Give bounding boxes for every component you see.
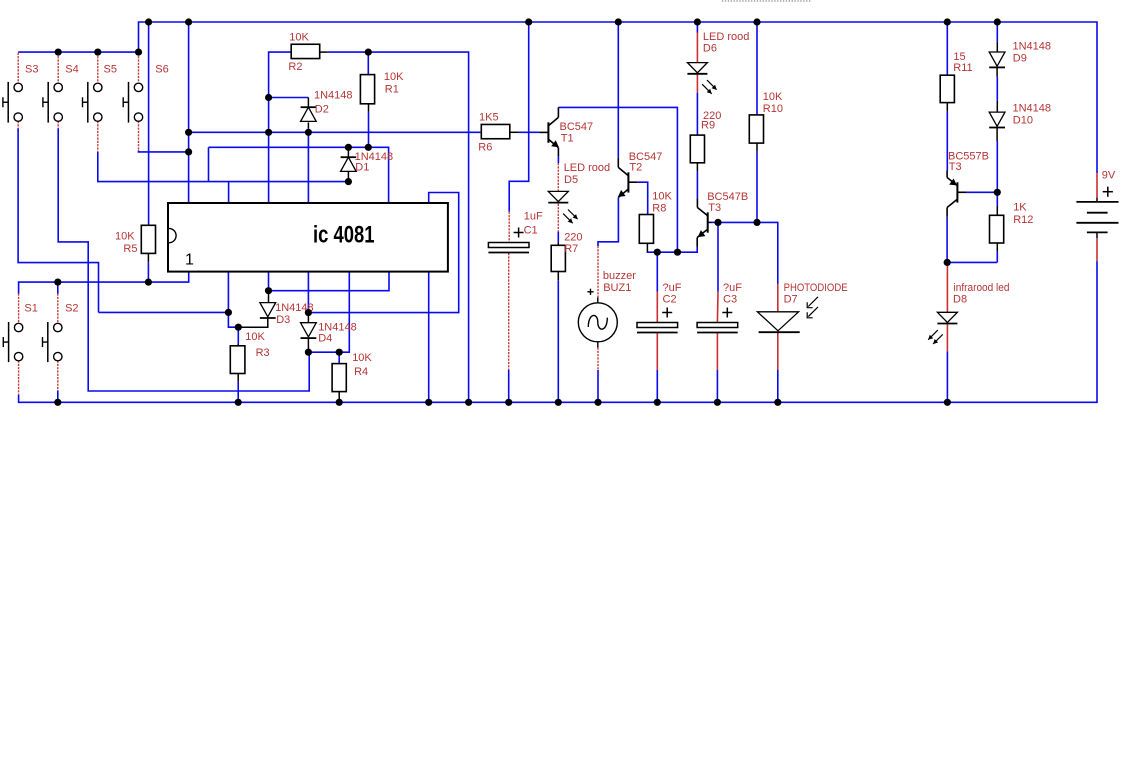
svg-text:R12: R12 [1013,214,1033,226]
wire R4 bottom black lead [338,392,340,401]
wire emitter row right [947,261,997,263]
svg-text:?uF: ?uF [723,282,742,294]
junction [54,279,61,286]
wire S3 row to IC pin2 [99,311,229,313]
transistor T2 BC547 [618,158,637,199]
wire D3-D1 gate link [269,272,390,291]
push switch S4 [43,82,63,123]
svg-text:10K: 10K [245,331,265,343]
svg-text:D8: D8 [953,294,967,306]
push switch S1 [3,322,23,362]
red wire D6 cathode [696,74,698,93]
svg-text:D4: D4 [318,332,332,344]
wire node row y132 [189,131,481,133]
wire R12 top [996,192,998,206]
wire R11 bottom black lead [946,103,948,112]
dashed link D5 to R7 [557,204,559,232]
diode D4 [301,323,317,338]
resistor R11 [940,75,954,102]
svg-text:buzzer: buzzer [603,270,636,282]
svg-text:10K: 10K [384,71,404,83]
svg-text:S4: S4 [65,64,78,76]
wire S6 bottom link [139,150,189,152]
wire D1 row y147 [209,147,389,203]
svg-text:T2: T2 [629,161,642,173]
LED D6 [687,63,707,74]
wire R9 bottom blue [696,172,698,199]
svg-text:R1: R1 [385,83,399,95]
svg-text:R2: R2 [288,61,302,73]
junction [185,148,192,155]
wire S2 top stub [57,282,59,293]
wire T3b base blue [966,191,997,193]
svg-text:BUZ1: BUZ1 [603,282,631,294]
capacitor C3 [697,308,738,333]
wire R5 bottom stub [147,262,149,282]
wire R8 bottom row [647,247,697,252]
wire IC pin bottom 428 [428,272,430,403]
battery 9V [1076,187,1118,239]
junction [265,287,272,294]
svg-text:T1: T1 [561,133,574,145]
junction [305,129,312,136]
svg-text:1K: 1K [1013,202,1027,214]
wire T1 emitter blue bit [557,156,559,163]
svg-text:10K: 10K [352,352,372,364]
red wire battery plus [1096,173,1098,198]
LED D8 [937,312,957,323]
IC U1 4081 body [168,203,448,272]
transistor T3 BC547B [697,198,711,247]
wire D4 bottom to R4 row [308,272,349,353]
wire S3 chain upper [18,129,98,313]
dashed link S4 top [57,53,59,84]
junction [185,129,192,136]
wire bottom bus [19,261,1097,402]
dashed link S1 bottom [18,361,20,396]
dashed link S3 bottom [17,121,19,129]
junction [345,144,352,151]
resistor R5 [141,225,155,253]
wire D4 row to S3 net [308,193,458,313]
dashed link S3 top [17,53,19,84]
junction [425,399,432,406]
transistor T3b BC557B (PNP) [947,171,966,217]
red wire C2 top [656,292,658,323]
junction [465,399,472,406]
wire R12 bottom black stub [996,243,998,252]
svg-text:D6: D6 [703,43,717,55]
junction [525,18,532,25]
svg-text:D7: D7 [784,294,798,306]
svg-text:S1: S1 [24,303,37,315]
junction [994,18,1001,25]
diode D2 [301,107,317,121]
red wire D6 anode [696,33,698,63]
resistor R8 [639,215,653,244]
wire D4 bottom black stub [307,339,309,353]
wire D3 top black stub [268,291,270,303]
svg-text:LED rood: LED rood [564,162,610,174]
junction [944,399,951,406]
capacitor C2 [637,308,678,333]
junction [305,349,312,356]
wire D2 bottom to IC pin [307,129,309,203]
push switch S5 [83,82,103,123]
svg-text:PHOTODIODE: PHOTODIODE [784,282,848,294]
dashed link S2 bottom [57,361,59,391]
junction [94,49,101,56]
svg-text:1uF: 1uF [524,211,543,223]
red wire D7 cathode [777,333,779,370]
wire D4 column [307,272,309,313]
wire switch row S3-S6 [18,51,138,53]
junction [54,399,61,406]
wire IC pin1 bottom row [19,272,189,294]
resistor R1 [360,75,374,104]
wire R4 top stub [338,352,340,363]
LED D6 arrows [707,80,717,90]
wire T1 collector row [558,107,677,252]
push switch S2 [43,322,63,362]
wire R4 bottom [338,400,340,402]
wire R7 top black lead [557,242,559,245]
svg-text:R7: R7 [564,243,578,255]
svg-text:R10: R10 [763,103,783,115]
wire D4 top black stub [307,313,309,323]
LED D5 arrows [568,210,578,220]
junction [365,49,372,56]
wire R1 bottom black lead [368,103,370,112]
wire S2 bottom stub [57,391,59,403]
junction [555,399,562,406]
junction [594,399,601,406]
svg-text:R3: R3 [256,347,270,359]
junction [135,49,142,56]
wire IC top pin 229 stub [228,182,230,203]
junction [774,399,781,406]
wire D9-D10 link [996,77,998,101]
junction [305,309,312,316]
junction [225,309,232,316]
resistor R2 [291,44,320,58]
wire R2 right black lead [320,51,328,53]
wire D2 top link [269,97,309,99]
svg-text:C2: C2 [663,294,677,306]
wire C2 bottom blue [656,370,658,402]
wire C1 jog [509,22,529,212]
dashed link C1 bottom [508,253,510,370]
wire R2 right to R1 top and corner [328,52,469,402]
capacitor C1 [488,228,529,253]
wire D1 bottom black stub [347,172,349,182]
dashed link S6 top [138,53,140,84]
resistor R3 [230,346,245,374]
resistor R9 [690,135,704,163]
resistor R12 [990,215,1004,243]
wire D1 top black stub [347,147,349,157]
junction [694,18,701,25]
svg-text:S5: S5 [104,64,117,76]
diode D10 [989,112,1005,127]
wire C1 bottom [508,370,510,402]
wire R11 bottom blue [946,111,948,170]
wire D9 chain top [996,22,998,42]
wire D10 bottom blue [996,141,998,192]
svg-text:1K5: 1K5 [479,111,499,123]
junction [185,18,192,25]
wire R3 bottom black lead [237,374,239,382]
diode D3 [260,303,276,318]
junction [345,178,352,185]
junction [753,219,760,226]
wire D10 top stub [996,101,998,112]
wire D2 top black stub [307,98,309,108]
LED D8 arrows [928,330,938,340]
wire R10 bottom black stub [756,143,758,152]
svg-text:D2: D2 [315,104,329,116]
junction [55,49,62,56]
wire buzzer bottom blue [597,370,599,402]
push switch S6 [123,82,143,123]
svg-text:9V: 9V [1102,170,1116,182]
junction [365,144,372,151]
junction [336,399,343,406]
junction [714,399,721,406]
svg-text:ic 4081: ic 4081 [313,222,375,249]
junction [654,399,661,406]
resistor R6 [481,124,510,138]
svg-text:D9: D9 [1013,52,1027,64]
red wire C2 bottom [656,333,658,370]
dashed link S4 bottom [57,121,59,129]
wire C2 top blue [656,252,658,291]
dashed link buzzer bottom [597,348,599,371]
wire D2 bottom black stub [307,122,309,128]
wire D6 top blue [696,22,698,33]
junction [336,349,343,356]
svg-text:10K: 10K [115,231,135,243]
wire R3 top stub [237,327,239,343]
wire R7 bottom black lead [557,272,559,281]
junction [944,259,951,266]
svg-text:S2: S2 [65,303,78,315]
LED D5 [548,191,568,202]
wire D7 bottom blue [777,370,779,402]
svg-text:1N4148: 1N4148 [1013,41,1052,53]
svg-text:R4: R4 [354,366,368,378]
svg-text:R5: R5 [123,243,137,255]
junction [265,129,272,136]
svg-text:D10: D10 [1013,114,1033,126]
dashed link buzzer top [597,246,599,298]
wire R5 bottom black lead [147,253,149,262]
wire top supply bus [139,22,1098,173]
red wire D8 cathode [946,324,948,352]
wire R9 bottom black lead [696,163,698,172]
wire R1 top stub [367,52,369,75]
stray grey dashed selection line [722,0,812,2]
dashed link S5 top [97,53,99,84]
wire T3 base link [712,221,719,223]
svg-text:S3: S3 [25,64,38,76]
buzzer BUZ1 [578,289,617,348]
red wire D7 anode [777,284,779,312]
svg-text:1N4148: 1N4148 [1013,103,1052,115]
junction [235,324,242,331]
junction [654,249,661,256]
svg-text:10K: 10K [289,32,309,44]
wire D6 to R9 blue [696,93,698,135]
junction [714,219,721,226]
svg-text:BC547: BC547 [560,121,594,133]
wire vertical IC pin1 top [188,22,190,203]
wire R3 bottom [237,382,239,403]
wire IC pin2 bottom [228,272,238,328]
wire R1 bottom stub [368,112,370,147]
wire T3b collector blue [946,217,948,263]
wire S5 bottom link [98,152,349,182]
wire D9 bottom stub [996,68,998,77]
wire C3 top blue [717,222,719,291]
wire R7 bottom [557,280,559,402]
junction [615,18,622,25]
svg-text:R6: R6 [478,141,492,153]
svg-text:T3: T3 [949,161,962,173]
wire D3 cathode link [238,319,267,327]
wire R12 top black lead [996,207,998,216]
wire R10 bottom blue [756,152,758,223]
junction [145,279,152,286]
svg-text:D3: D3 [276,314,290,326]
wire y147 drop [208,147,210,181]
push switch S3 [3,82,23,123]
wire R6 right black lead [510,131,519,133]
svg-text:R11: R11 [953,62,972,74]
svg-text:T3: T3 [708,202,721,214]
dashed link S2 top [57,294,59,324]
svg-text:10K: 10K [763,91,783,103]
svg-text:S6: S6 [155,64,168,76]
red wire C3 top [716,292,719,323]
svg-text:LED rood: LED rood [703,31,749,43]
red wire battery minus [1096,238,1098,261]
junction [145,18,152,25]
wire R10 top [756,22,758,115]
junction [994,189,1001,196]
wire vertical to R5 [148,22,150,225]
wire R8 bottom black stub [646,243,648,252]
wire T2 collector [617,22,619,158]
svg-text:10K: 10K [652,190,672,202]
IC pin1 notch [169,228,176,242]
junction [235,399,242,406]
wire S4 chain upper [58,129,309,392]
resistor R10 [749,115,763,143]
diode D1 [341,157,357,171]
wire R12 bottom blue [996,252,998,263]
wire D10 bottom stub [996,128,998,141]
photodiode D7 arrows [807,297,818,318]
wire R3 top black lead [237,344,239,346]
dashed link S5 bottom [97,121,99,152]
svg-text:?uF: ?uF [663,282,682,294]
wire D8 bottom blue [946,351,948,402]
dashed link S1 top [18,294,20,324]
svg-text:1N4148: 1N4148 [314,90,353,102]
photodiode D7 [757,312,799,332]
svg-text:D1: D1 [355,162,369,174]
red wire C3 bottom [716,333,718,370]
wire buzzer top link [598,198,618,246]
resistor R4 [332,364,346,392]
resistor R7 [551,245,565,271]
junction [505,399,512,406]
svg-text:infrarood led: infrarood led [954,282,1010,294]
svg-text:D5: D5 [564,174,578,186]
dashed link S6 bottom [138,121,140,150]
junction [944,18,951,25]
svg-text:R9: R9 [701,120,715,132]
diode D9 [989,52,1005,67]
wire R2-R1 row [269,52,291,203]
wire T2 base to R8 [637,182,647,214]
wire R11 top [946,22,948,75]
svg-text:R8: R8 [652,203,666,215]
red wire D8 anode [946,266,948,312]
wire D5 cathode blue bit [557,232,559,243]
wire T3 base row [718,222,778,284]
junction [674,249,681,256]
svg-text:1: 1 [185,251,194,268]
svg-text:C3: C3 [723,294,737,306]
transistor T1 BC547 [539,107,559,156]
dashed link T1 emitter to D5 [557,163,559,191]
svg-text:C1: C1 [524,225,538,237]
junction [265,94,272,101]
dashed link C1 top [508,212,510,243]
wire D3 top stub [268,272,270,291]
svg-text:220: 220 [564,232,582,244]
wire R6 right to T1 base [519,131,540,133]
wire D9 top stub [996,42,998,52]
junction [753,18,760,25]
wire C3 bottom blue [716,370,718,402]
